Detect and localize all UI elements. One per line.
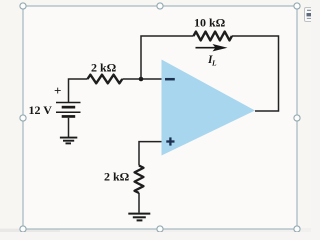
svg-text:+: +: [54, 83, 61, 98]
resistor R2 2 kΩ (to ground): [104, 166, 144, 194]
wire battery to ground: [68, 118, 70, 137]
selection frame: [23, 6, 297, 229]
svg-text:2 kΩ: 2 kΩ: [104, 170, 130, 184]
selection handle bottom-left: [20, 226, 26, 232]
paste options icon: [305, 8, 317, 22]
wire battery to inverting input: [69, 79, 162, 102]
selection handle top-right: [294, 3, 300, 9]
selection handle bottom-middle: [157, 226, 163, 232]
selection handle top-left: [20, 3, 26, 9]
selection handle top-middle: [157, 3, 163, 9]
ground (battery): [60, 138, 77, 144]
wire noninverting input: [139, 142, 162, 166]
svg-text:10 kΩ: 10 kΩ: [194, 16, 226, 30]
svg-text:2 kΩ: 2 kΩ: [91, 61, 117, 75]
current arrow IL: [196, 44, 228, 68]
wire node up to feedback: [141, 36, 194, 79]
node A (junction at inverting input): [139, 77, 144, 82]
op-amp U1: [162, 60, 256, 156]
wire R2 to ground: [138, 193, 140, 213]
selection handle bottom-right: [294, 226, 300, 232]
resistor R1 2 kΩ (input): [88, 61, 123, 84]
svg-text:L: L: [211, 59, 217, 68]
wire feedback right side: [232, 36, 279, 111]
voltage source V1 12 V: [29, 83, 81, 118]
selection handle mid-left: [20, 115, 26, 121]
selection handle mid-right: [294, 115, 300, 121]
svg-text:12 V: 12 V: [29, 103, 53, 117]
ground (R2): [128, 214, 150, 221]
resistor RF 10 kΩ (feedback): [194, 16, 232, 41]
